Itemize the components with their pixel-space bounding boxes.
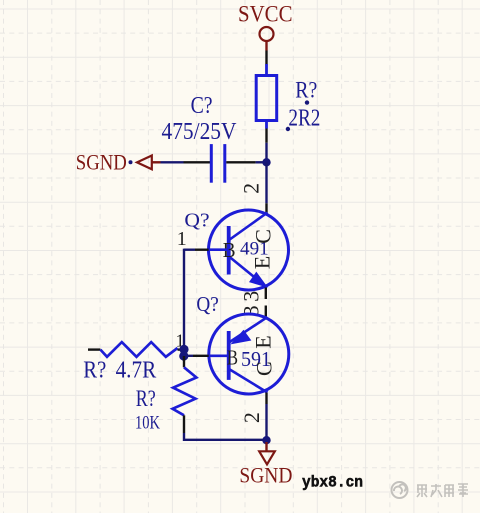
wire 10K to bottom rail — [184, 433, 267, 440]
svg-text:C?: C? — [191, 93, 213, 119]
watermark logo — [392, 482, 408, 498]
svg-text:SGND: SGND — [239, 463, 292, 488]
value 2R2 — [286, 106, 321, 132]
watermark text (CJK glyph shapes) — [417, 484, 468, 497]
svg-text:4.7R: 4.7R — [116, 358, 157, 384]
pin 2 of Q1 (collector pin) — [265, 203, 267, 213]
resistor R? 2R2 — [256, 64, 277, 129]
junction (Q1 base / 4.7R) — [179, 345, 188, 354]
pin 1 of Q2 (base pin) — [193, 355, 209, 357]
wire Q2 collector to junction — [265, 404, 267, 440]
wire R1 to junction — [265, 143, 267, 163]
svg-text:R?: R? — [83, 358, 106, 384]
svg-text:ybx8.cn: ybx8.cn — [302, 473, 363, 491]
transistor Q1 (NPN) — [209, 210, 289, 290]
resistor R? 4.7R — [88, 342, 184, 357]
wire Q1 emitter stub — [265, 288, 267, 300]
svg-text:3: 3 — [239, 291, 264, 302]
pin 2 of R1 — [265, 129, 267, 143]
svg-text:R?: R? — [295, 78, 317, 103]
transistor Q2 (PNP) — [209, 314, 289, 394]
pin 1 of C1 — [184, 161, 212, 163]
pin 2 of C1 — [226, 161, 255, 163]
svg-text:E: E — [250, 335, 275, 348]
resistor R? 10K — [173, 356, 197, 433]
svg-text:E: E — [250, 256, 275, 269]
svg-text:Q?: Q? — [196, 292, 218, 316]
power port SVCC — [238, 2, 293, 51]
svg-text:SGND: SGND — [76, 149, 127, 174]
svg-text:2: 2 — [239, 412, 264, 423]
svg-text:B: B — [227, 346, 238, 370]
svg-text:Q?: Q? — [184, 211, 209, 232]
pin 2 of Q2 (collector pin) — [265, 393, 267, 405]
wire base vertical — [183, 249, 185, 350]
pin 1 of Q1 (base pin) — [195, 248, 209, 250]
wire capacitor to junction — [256, 161, 267, 163]
wire Q1 base — [184, 248, 195, 250]
power port SGND (bottom) — [239, 442, 292, 488]
svg-text:2R2: 2R2 — [288, 106, 320, 132]
power port SGND (left) — [76, 149, 161, 174]
wire SGND to capacitor — [161, 161, 212, 163]
wire Q2 emitter stub — [265, 306, 267, 317]
wire SVCC to R1 — [265, 51, 267, 65]
svg-text:R?: R? — [136, 386, 156, 411]
capacitor C? — [211, 144, 225, 183]
svg-text:C: C — [251, 229, 276, 244]
svg-text:C: C — [251, 361, 276, 376]
wire junction to Q1 collector — [265, 162, 267, 203]
junction — [262, 158, 270, 166]
junction (Q2 base / 10K) — [179, 351, 188, 360]
wire Q2 base — [184, 355, 193, 357]
junction (bottom) — [262, 436, 270, 444]
svg-text:475/25V: 475/25V — [162, 119, 238, 145]
svg-text:10K: 10K — [135, 413, 160, 433]
designator R? (2R2) — [295, 78, 317, 105]
svg-text:SVCC: SVCC — [238, 2, 293, 27]
svg-text:2: 2 — [239, 183, 264, 194]
svg-text:1: 1 — [177, 228, 187, 250]
